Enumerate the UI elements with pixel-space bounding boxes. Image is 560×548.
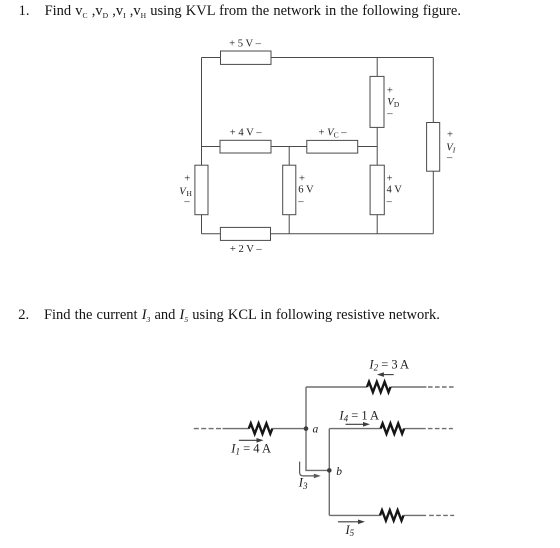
wire bottom — [202, 233, 434, 235]
wire left — [201, 58, 203, 234]
wire I5 branch after resistor — [404, 514, 427, 516]
node a — [304, 426, 309, 431]
svg-text:I3: I3 — [298, 476, 308, 491]
svg-text:I4 = 1 A: I4 = 1 A — [338, 409, 379, 424]
svg-text:–: – — [386, 108, 393, 119]
svg-text:4 V: 4 V — [387, 185, 403, 196]
resistor I2 — [367, 382, 390, 392]
wire top branch dashed end — [428, 386, 454, 388]
problem 1 statement — [19, 3, 461, 20]
resistor I1 — [249, 423, 272, 433]
label +2V — [230, 244, 262, 255]
wire 4V branch — [376, 147, 378, 234]
source VD — [370, 76, 384, 127]
arrow I3 hook — [300, 462, 321, 479]
svg-text:+ VC –: + VC – — [318, 128, 347, 140]
source 6V — [283, 165, 296, 215]
wire I4 branch dashed end — [428, 428, 453, 430]
label 6V — [297, 173, 314, 207]
label 4V — [386, 173, 403, 207]
svg-text:+: + — [447, 130, 453, 141]
resistor I5 — [380, 510, 403, 520]
arrow I1 — [239, 438, 264, 443]
wire I4 branch — [329, 428, 380, 430]
problem 2 statement — [18, 307, 440, 324]
wire resistor I1 to node a — [272, 428, 306, 430]
svg-text:I1 = 4 A: I1 = 4 A — [230, 442, 271, 457]
wire main to resistor I1 — [223, 428, 250, 430]
wire node a up to top branch — [305, 387, 307, 429]
label VI — [446, 130, 456, 164]
wire middle — [202, 146, 378, 148]
arrow I5 — [338, 520, 365, 525]
wire node b down to I5 branch corner — [328, 470, 330, 515]
svg-text:+ 2 V –: + 2 V – — [230, 244, 262, 255]
arrow I2 (left) — [377, 372, 394, 377]
wire I5 branch — [329, 514, 380, 516]
svg-text:+: + — [184, 173, 190, 184]
svg-text:+: + — [387, 85, 393, 96]
source +5V — [221, 51, 272, 64]
resistor I4 — [381, 423, 404, 433]
wire node a down elbow to node b — [306, 429, 329, 471]
wire 6V branch — [288, 147, 290, 234]
wire top branch — [306, 386, 367, 388]
source +2V — [220, 227, 270, 240]
svg-text:–: – — [183, 196, 190, 207]
label VH — [179, 173, 192, 207]
svg-text:+: + — [299, 173, 305, 184]
svg-text:+ 5 V –: + 5 V – — [229, 39, 261, 50]
svg-text:+: + — [387, 173, 393, 184]
svg-text:+ 4 V –: + 4 V – — [230, 128, 262, 139]
wire I4 branch after resistor — [404, 428, 426, 430]
svg-text:I: I — [452, 145, 456, 154]
wire top branch after resistor I2 — [391, 386, 427, 388]
wire VD branch — [376, 58, 378, 147]
source VC — [307, 140, 358, 153]
svg-text:6 V: 6 V — [298, 184, 314, 195]
label +4V — [230, 128, 262, 139]
arrow I4 — [346, 422, 371, 427]
wire right — [432, 58, 434, 234]
source VI — [427, 123, 440, 172]
svg-text:–: – — [386, 197, 393, 208]
source VH — [195, 165, 208, 215]
source +4V — [220, 140, 271, 153]
label VD — [386, 85, 400, 119]
svg-text:–: – — [446, 152, 453, 163]
node b — [327, 468, 332, 473]
source 4V — [370, 165, 384, 215]
svg-text:b: b — [336, 466, 342, 478]
label +5V — [229, 39, 261, 50]
label +VC — [318, 128, 347, 140]
wire main dashed lead — [194, 428, 221, 430]
wire top — [202, 57, 434, 59]
svg-text:–: – — [297, 196, 304, 207]
svg-text:I5: I5 — [345, 523, 355, 538]
svg-text:a: a — [313, 424, 319, 436]
wire I5 branch dashed end — [429, 514, 454, 516]
wire node b up to I4 branch corner — [328, 429, 330, 471]
svg-text:D: D — [394, 100, 400, 109]
svg-text:I2 = 3 A: I2 = 3 A — [368, 358, 409, 373]
